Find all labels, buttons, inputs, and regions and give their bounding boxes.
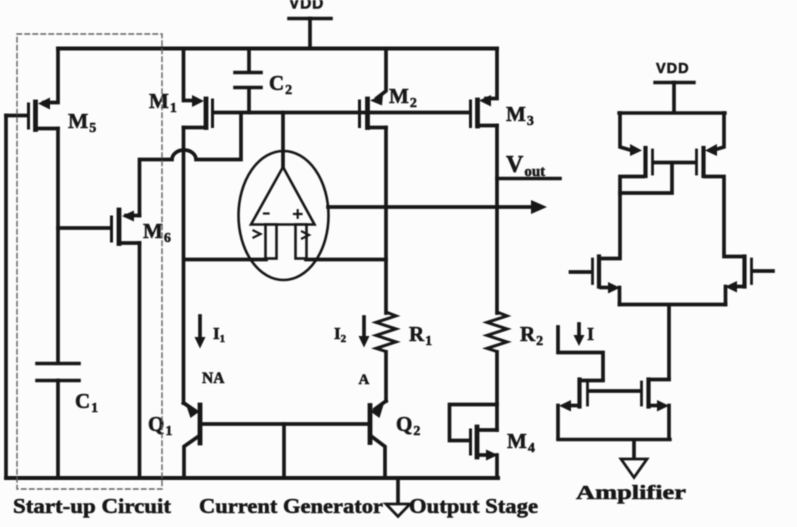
wire M6 drain up and over to gate rail (hump crossover) [140,113,242,216]
wire M3 drain down to R2 (output branch) [495,126,499,314]
svg-text:I2: I2 [334,324,347,345]
transistor amplifier right PMOS load [697,113,725,176]
transistor amplifier mirror left NMOS (diode-connected) [558,380,603,439]
wire op-amp minus input to node NA branch [184,258,266,262]
power VDD (amplifier supply symbol) [655,61,694,111]
svg-text:Q1: Q1 [148,412,172,439]
svg-text:R2: R2 [520,322,543,349]
wire amplifier top rail [619,111,725,114]
transistor M2 [360,49,417,128]
resistor R2 [487,312,543,352]
svg-text:I: I [587,324,594,344]
wire PMOS gates link and diode connection [620,163,694,194]
transistor M1 [149,49,213,128]
svg-text:C2: C2 [269,71,292,98]
wire M2 drain down to R1 [384,128,388,314]
start-up circuit dashed boundary box [17,34,162,489]
svg-text:M3: M3 [506,102,534,129]
wire node A down to Q2 collector [384,352,388,401]
wire left PMOS drain to left input NMOS [602,177,643,259]
svg-text:M2: M2 [389,84,417,111]
svg-text:M1: M1 [149,89,177,116]
wire top supply rail [58,47,497,51]
svg-text:Start-up Circuit: Start-up Circuit [13,494,171,518]
current label I1 with arrow [195,316,226,349]
transistor amplifier mirror right NMOS [590,380,670,439]
wire M5 gate to left rail down to ground [4,116,8,479]
current label I2 with arrow [334,317,370,348]
output Vout terminal [497,152,560,180]
svg-text:Vout: Vout [506,152,545,180]
svg-text:NA: NA [202,370,225,387]
svg-text:Q2: Q2 [396,412,420,439]
wire op-amp plus input to node A branch [306,258,386,262]
wire M1 drain down to Q1 collector (node NA branch) [182,128,186,404]
svg-text:Amplifier: Amplifier [576,482,686,504]
wire bottom ground rail [6,476,498,480]
ground symbol (main) [386,479,410,517]
wire right PMOS drain to right input NMOS [705,177,743,257]
svg-text:VDD: VDD [289,0,324,13]
transistor M5 (start-up PMOS) [6,49,96,137]
wire gate rail M1-M2-M3 [213,111,469,115]
svg-text:Output Stage: Output Stage [409,494,538,518]
transistor M4 (diode-connected) [450,405,535,479]
wire R2 down to M4 drain [495,352,499,430]
current label I with arrow (amplifier bias) [574,324,595,346]
svg-text:I1: I1 [213,324,225,345]
wire amplifier bottom rail [558,438,670,441]
transistor amplifier left PMOS load [620,113,653,176]
wire bias input jog to mirror [558,327,603,379]
svg-text:M4: M4 [507,429,535,456]
svg-text:Current Generator: Current Generator [199,494,383,518]
power VDD (main supply symbol) [289,0,331,49]
transistor Q1 (BJT) [148,402,200,479]
resistor R1 [376,312,432,352]
op-amp U1 (error amplifier symbol) [239,113,329,281]
wire base tap down to ground rail [282,424,286,478]
capacitor C1 [37,364,98,479]
wire Q1-Q2 base link [202,422,368,426]
wire M6 source down to ground rail [138,243,142,478]
transistor Q2 (BJT) [370,401,420,478]
capacitor C2 [235,49,292,113]
ground symbol (amplifier) [621,441,647,478]
wire op-amp output arrow to amplifier detail [328,200,547,214]
transistor M6 (start-up) [58,210,171,246]
wire differential pair tail [620,305,726,380]
svg-text:C1: C1 [75,389,98,416]
svg-text:VDD: VDD [656,61,690,77]
svg-text:M5: M5 [68,109,96,136]
wire M5 drain down to C1 [56,129,60,364]
svg-text:M6: M6 [143,219,171,246]
svg-text:A: A [359,372,370,388]
transistor amplifier left input NMOS [571,257,621,305]
svg-text:R1: R1 [409,322,432,349]
transistor M3 [471,49,534,130]
transistor amplifier right input NMOS [725,257,773,305]
